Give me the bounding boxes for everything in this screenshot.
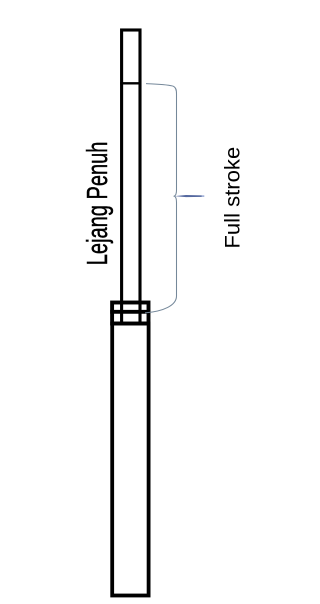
brace (full stroke bracket) <box>145 84 177 313</box>
piston rod <box>122 30 140 324</box>
svg-text:Lejang Penuh: Lejang Penuh <box>81 142 114 266</box>
rod stroke divider line <box>120 82 141 84</box>
cylinder head collar <box>112 303 148 324</box>
leader line to Full stroke label <box>175 195 202 197</box>
cylinder body <box>112 324 148 596</box>
collar middle line <box>110 310 150 314</box>
svg-text:Full stroke: Full stroke <box>220 147 245 249</box>
